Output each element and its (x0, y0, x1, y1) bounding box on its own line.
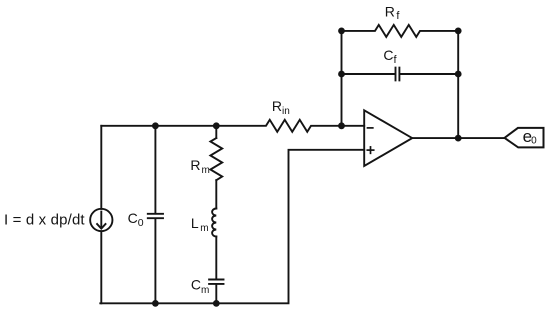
svg-text:Rf: Rf (385, 3, 401, 22)
svg-text:e0: e0 (523, 127, 537, 147)
svg-text:I = d x dp/dt: I = d x dp/dt (4, 212, 85, 229)
svg-text:Lm: Lm (191, 215, 209, 234)
svg-text:Rin: Rin (272, 98, 290, 117)
svg-text:Cf: Cf (383, 47, 397, 66)
svg-text:Rm: Rm (190, 157, 209, 176)
svg-text:C0: C0 (128, 210, 144, 229)
svg-text:Cm: Cm (191, 277, 209, 297)
